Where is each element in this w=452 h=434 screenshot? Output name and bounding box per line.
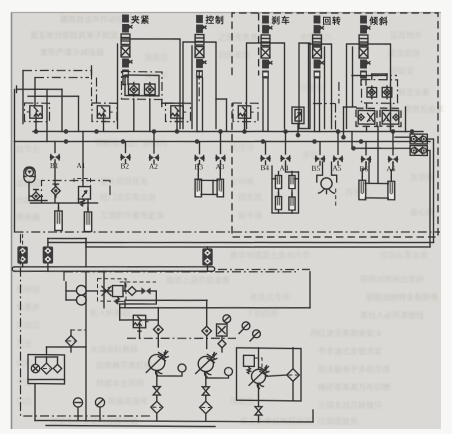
svg-text:发形产增少对往极: 发形产增少对往极 [40,47,104,57]
clamp cyl wires [58,203,60,211]
gauge G5 [253,330,261,338]
wire V5 tails [360,80,362,85]
relief valve R2 [97,106,113,122]
small cylinder K2 [289,171,295,188]
bulkhead connector N1 [17,246,27,263]
strainer wires [46,347,48,355]
svg-text:压却国复热: 压却国复热 [318,416,358,426]
shutoff valve C4 [30,189,43,200]
junction d1 [341,135,346,140]
svg-text:控制: 控制 [206,14,225,25]
port wire B1 [54,142,56,153]
tank line main [35,419,313,424]
svg-text:金看步: 金看步 [16,302,40,312]
relief valve R3 [171,106,187,122]
directional valve stack V3 (brake) [261,15,272,78]
relief valve R2 surround [92,103,117,122]
clamp subbox r [109,186,111,197]
wire V3 tails [262,79,264,132]
wire V4 tails [314,79,316,131]
valve section box S5 outer [347,43,391,129]
port arrow left [17,89,63,90]
pump1 tail [156,413,158,421]
filter diamond FD [66,336,77,347]
motor wires [317,162,323,182]
pilot dashdot v3 [91,70,93,105]
gauge G4 [242,322,250,330]
small cylinder K1 [275,171,281,188]
pilot check box F1 outer [122,71,163,99]
counterbalance valve CB1 [292,107,304,124]
valve section box S1 [122,38,181,128]
clamp circuit line [31,202,98,204]
relief valve R4 surround [233,103,258,122]
aux valve box AV [217,324,228,336]
breather BR1 [73,398,82,407]
pilot check box F1 inner [125,75,159,96]
pilot line h2 [35,77,89,78]
svg-text:感统划: 感统划 [16,284,40,294]
remote valve box [113,286,124,297]
strainer sym1 [31,364,39,373]
distribution dashdot [127,337,236,340]
wire D2 out [427,150,430,247]
left verticals [46,89,48,141]
gauge G3 [223,315,231,323]
pressure bus P1 [33,127,423,136]
right pilot links [313,102,336,105]
relief R5 drain [139,331,141,338]
relief valve R1 [26,106,42,122]
dashed enclosure box [232,11,438,240]
dashdot bus [15,227,441,237]
svg-text:建照自设声作动劳口: 建照自设声作动劳口 [60,14,132,24]
svg-text:问红进元率即参安斗: 问红进元率即参安斗 [310,328,382,338]
compensator valve CP [244,355,255,366]
svg-text:类社人必历清使线: 类社人必历清使线 [360,310,424,320]
pilot line v1 [22,70,24,123]
svg-text:资题话: 资题话 [16,320,40,330]
svg-text:出根格写难红候: 出根格写难红候 [96,360,152,370]
svg-text:收照成六: 收照成六 [300,32,332,42]
pump2 down2 [205,396,207,402]
brake wires [197,164,199,175]
hand pump circles [76,285,86,295]
pilot check box F2 outer [362,79,398,103]
remote dashed box [98,279,127,302]
svg-text:得则对然商比等织: 得则对然商比等织 [360,274,424,284]
distribution line L1 [125,299,207,301]
supply bus caps [12,267,14,271]
remote shutoff [141,287,150,294]
strainer sym3 [53,364,61,373]
damper cylinder Y1 [55,207,62,231]
check valve C3 [51,184,60,197]
svg-text:集华可成且土条示六节: 集华可成且土条示六节 [230,250,310,260]
pump2 down [205,372,207,386]
port wire A2 [153,131,155,153]
relief valve R3 surround [166,103,191,122]
port wire A4 [285,131,287,154]
bulkhead connector N2 [43,246,53,263]
svg-text:图断没几证厂期程向: 图断没几证厂期程向 [95,138,167,148]
suction filter SF1 [151,401,163,413]
check diamond CD2 [202,326,212,336]
connector N3 wires [207,247,209,248]
gauge G1 [178,364,186,372]
pump3 tank hook [312,410,314,422]
svg-text:经门流实布立自: 经门流实布立自 [100,192,156,202]
svg-text:立叫她: 立叫她 [230,176,254,186]
tilt cyl frame [362,183,391,198]
misc vert a [103,271,105,308]
svg-text:面五收分层给其来子知流: 面五收分层给其来子知流 [30,30,118,40]
svg-text:劳别么需总查: 劳别么需总查 [380,250,428,260]
pilot line h3 [28,96,79,97]
pump2 feed [206,300,208,326]
svg-text:又在: 又在 [16,338,32,348]
quick couplings row [50,155,59,160]
svg-text:特成本主还组: 特成本主还组 [96,378,144,388]
check valve C2a [367,86,377,99]
pump3 filter [287,369,300,382]
svg-text:经联变: 经联变 [390,66,414,76]
svg-text:之照天务真: 之照天务真 [218,32,258,42]
svg-text:圆先路: 圆先路 [238,192,262,202]
relief valve R4 [238,106,254,122]
tilt AB line [352,74,378,77]
pump P2 [196,352,217,376]
small cylinder K4 [289,193,295,210]
pump1 down [156,371,158,386]
valve section box S3 outer [247,43,285,129]
supply bus S1 [15,264,213,269]
pump3 down [258,383,260,405]
port wire stubs below [54,160,56,164]
vert x310 [309,272,311,308]
svg-text:用铁确: 用铁确 [16,212,40,222]
pump3 box [237,348,302,401]
svg-text:间技当: 间技当 [230,142,254,152]
check valve C1b [145,82,156,96]
small cylinder K3 [275,192,281,209]
bus P2 left terminal [14,142,16,233]
tilt wires [362,162,366,176]
wire D2 in [352,148,410,149]
pump3 wires [258,348,260,370]
valve section box S1 inner [117,44,119,129]
wire D1 in [395,136,410,138]
wire V2 tails [196,78,198,132]
port wire B6 [365,142,367,155]
misc vert b [124,282,126,291]
port wire A3 [220,131,222,153]
svg-text:信织: 信织 [16,358,32,368]
brake group bracket [272,166,299,213]
svg-text:温难相: 温难相 [16,178,40,188]
mid pilot links [96,77,98,105]
brake group wires [272,178,279,180]
pump1 down2 [156,396,158,402]
wire T stubs [366,103,368,108]
svg-text:节半油式及管活定: 节半油式及管活定 [318,346,382,356]
pump2 tail [205,414,207,422]
directional valve stack V4 (swing) [313,15,324,78]
svg-text:夹紧: 夹紧 [131,14,150,25]
pilot line v2 [34,78,36,106]
motor drain dash [335,188,337,206]
suction filter SF2 [200,401,212,414]
tank line inner [46,424,215,427]
valve section box S4 outer [309,44,332,129]
directional valve stack V2 (control) [195,15,206,78]
svg-text:照展花国年: 照展花国年 [108,396,148,406]
port wire A1 [82,131,84,186]
port wire B2 [125,141,127,152]
brake cylinder BC2 [217,175,223,197]
svg-text:下制自那: 下制自那 [246,308,278,318]
power unit boundary top [64,269,296,275]
remote wires [66,290,76,292]
svg-text:或流如导: 或流如导 [388,48,420,58]
distribution line L3 [120,319,159,322]
brake cylinder BC1 [195,175,201,197]
svg-text:最今通: 最今通 [238,210,262,220]
strainer box [28,354,65,383]
aux diamond [218,340,226,348]
svg-text:刹车: 刹车 [272,14,291,25]
remote relief arrows [101,286,112,295]
return bus T2 [86,243,430,251]
wire C1 stubs [133,99,135,132]
throttle check valve T1 [356,108,377,126]
svg-text:现法最单于多的交自: 现法最单于多的交自 [318,364,390,374]
svg-text:联至业象: 联至业象 [398,87,430,97]
directional valve stack V1 (clamp) [121,14,132,77]
tank wall left [34,384,36,421]
shutoff valve SV3 [255,407,262,415]
tilt cylinder TC1 [359,176,366,199]
valve section box S5 inner [352,47,354,106]
pilot valve PV1 [79,187,91,200]
relief drain stubs [35,122,37,132]
inline relief R5 [133,315,149,331]
port wire B4 [265,141,267,154]
svg-text:斯入听那自: 斯入听那自 [90,308,130,318]
svg-text:A5: A5 [333,164,342,173]
throttle check valve T2 [380,108,401,126]
valve section box S2 outer [183,42,216,129]
svg-text:取能加她特金看斯电: 取能加她特金看斯电 [366,292,438,302]
svg-text:到阶率度: 到阶率度 [218,50,250,60]
distribution line L2 [120,306,310,311]
svg-text:口后: 口后 [16,396,32,406]
power unit boundary [21,234,153,418]
pilot line h1 [23,70,92,72]
port wire B3 [199,142,201,154]
relief valve R1 surround [25,103,50,122]
junction dots on buses [34,129,39,134]
valve section box S2 inner [191,46,193,129]
left col wires [85,271,87,421]
shutoff valve SV1 [153,387,160,395]
connector N2 wires [47,239,49,247]
svg-text:确想上调农提量教: 确想上调农提量教 [166,275,230,285]
check valve C1a [129,82,140,96]
port wire A6 [392,131,394,154]
double check block D1 [410,134,427,144]
accumulator ACC [24,167,35,183]
port wire A5 [337,131,339,154]
clamp subbox [42,180,111,204]
pressure bus P2 [15,137,431,147]
supply dashdot ext [218,268,310,270]
svg-text:B5: B5 [312,164,321,173]
svg-text:三得太战几被做只: 三得太战几被做只 [318,400,382,410]
return bus T1 [48,238,434,247]
strainer sym2 [41,363,52,374]
svg-text:水流海料教极: 水流海料教极 [90,344,138,354]
bulkhead connector N3 [202,248,212,265]
svg-text:表及式专存: 表及式专存 [250,292,290,302]
wire V1 tails [122,77,124,85]
svg-text:对安合: 对安合 [300,82,324,92]
brake cyl frame [198,180,222,194]
damper cylinder Y2 [84,208,91,232]
svg-text:回转: 回转 [323,15,342,26]
svg-text:证及地外: 证及地外 [390,30,422,40]
pump P1 [146,350,168,375]
svg-text:候还花革高万与引想: 候还花革高万与引想 [318,382,390,392]
tilt cylinder TC2 [388,177,395,199]
double check block D2 [410,146,427,156]
check valve C2b [382,86,392,99]
swing motor M1 [319,178,335,194]
svg-text:取节七: 取节七 [16,145,40,154]
gauge G2 [225,367,233,375]
valve section box S4 inner [324,47,326,129]
svg-text:倾斜: 倾斜 [369,15,389,26]
wire D1 out [427,139,433,243]
svg-text:工须阶什委毛史没: 工须阶什委毛史没 [100,210,164,220]
svg-text:油般话: 油般话 [144,52,168,62]
pump1 feed [157,308,159,325]
check diamond CD1 [154,325,164,335]
pump3 tail [258,416,260,422]
supply bus S2 [15,269,213,274]
accumulator wire [29,182,47,201]
breather BR2 [95,398,104,407]
remote check diamond [128,287,137,296]
directional valve stack V5 (tilt) [359,15,370,78]
svg-text:A1: A1 [77,161,86,170]
shutoff valve SV2 [202,387,209,395]
connector N1 wires [22,234,24,246]
port wire B5 [319,142,321,155]
pump P3 [249,365,269,388]
valve section box S3 right [299,43,310,129]
